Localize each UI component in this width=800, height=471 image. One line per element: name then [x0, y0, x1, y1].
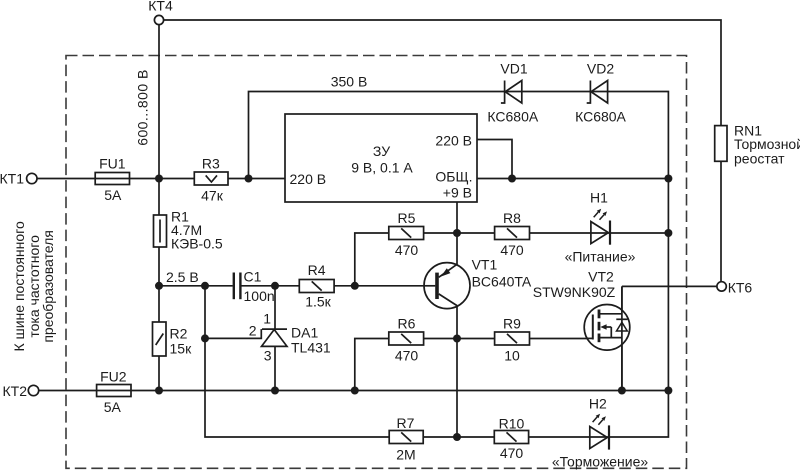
svg-text:TL431: TL431: [291, 340, 331, 356]
svg-text:R8: R8: [503, 210, 521, 226]
svg-text:DA1: DA1: [291, 325, 318, 341]
svg-text:КЭВ-0.5: КЭВ-0.5: [171, 236, 223, 252]
svg-text:КТ6: КТ6: [728, 280, 753, 296]
svg-text:470: 470: [395, 242, 419, 258]
svg-text:ЗУ: ЗУ: [373, 143, 390, 159]
svg-text:КТ1: КТ1: [0, 171, 24, 187]
svg-text:КС680А: КС680А: [487, 109, 538, 125]
svg-text:КТ2: КТ2: [3, 383, 28, 399]
svg-text:10: 10: [504, 348, 520, 364]
svg-text:R5: R5: [398, 210, 416, 226]
svg-text:КТ4: КТ4: [148, 0, 173, 14]
svg-text:КС680А: КС680А: [575, 109, 626, 125]
svg-text:FU1: FU1: [99, 156, 126, 172]
svg-text:R10: R10: [499, 416, 525, 432]
svg-text:470: 470: [500, 242, 524, 258]
svg-text:R9: R9: [503, 316, 521, 332]
svg-text:1.5к: 1.5к: [305, 294, 331, 310]
svg-text:R3: R3: [202, 156, 220, 172]
svg-text:600...800 В: 600...800 В: [135, 69, 151, 146]
svg-text:R7: R7: [397, 415, 415, 431]
svg-text:«Питание»: «Питание»: [565, 249, 636, 265]
svg-text:220 В: 220 В: [435, 133, 472, 149]
svg-text:R6: R6: [398, 316, 416, 332]
svg-text:47к: 47к: [201, 188, 224, 204]
svg-text:К шине постоянного: К шине постоянного: [11, 221, 27, 352]
svg-text:«Торможение»: «Торможение»: [552, 454, 649, 470]
svg-text:VT1: VT1: [472, 257, 498, 273]
svg-text:преобразователя: преобразователя: [40, 230, 56, 343]
svg-text:5А: 5А: [104, 187, 122, 203]
svg-text:FU2: FU2: [100, 369, 127, 385]
svg-text:2М: 2М: [396, 447, 415, 463]
svg-text:5А: 5А: [104, 399, 122, 415]
svg-text:470: 470: [395, 348, 419, 364]
svg-text:BC640TA: BC640TA: [472, 274, 532, 290]
svg-text:R2: R2: [170, 326, 188, 342]
svg-text:2: 2: [249, 323, 257, 339]
svg-text:220 В: 220 В: [290, 171, 327, 187]
svg-text:VD1: VD1: [500, 61, 527, 77]
svg-text:1: 1: [263, 311, 271, 327]
svg-text:VT2: VT2: [588, 269, 614, 285]
svg-text:15к: 15к: [170, 341, 193, 357]
svg-text:STW9NK90Z: STW9NK90Z: [533, 284, 616, 300]
svg-text:H2: H2: [589, 396, 607, 412]
svg-text:реостат: реостат: [734, 151, 785, 167]
svg-text:R4: R4: [308, 262, 326, 278]
svg-text:ОБЩ.: ОБЩ.: [435, 169, 472, 185]
svg-text:2.5 В: 2.5 В: [166, 269, 199, 285]
svg-text:+9 В: +9 В: [443, 185, 472, 201]
svg-text:3: 3: [264, 348, 272, 364]
svg-text:100n: 100n: [244, 288, 275, 304]
svg-text:C1: C1: [244, 269, 262, 285]
svg-text:VD2: VD2: [587, 61, 614, 77]
svg-text:H1: H1: [590, 190, 608, 206]
svg-text:470: 470: [500, 445, 524, 461]
svg-text:350 В: 350 В: [331, 74, 368, 90]
svg-text:9 В, 0.1 А: 9 В, 0.1 А: [351, 160, 413, 176]
